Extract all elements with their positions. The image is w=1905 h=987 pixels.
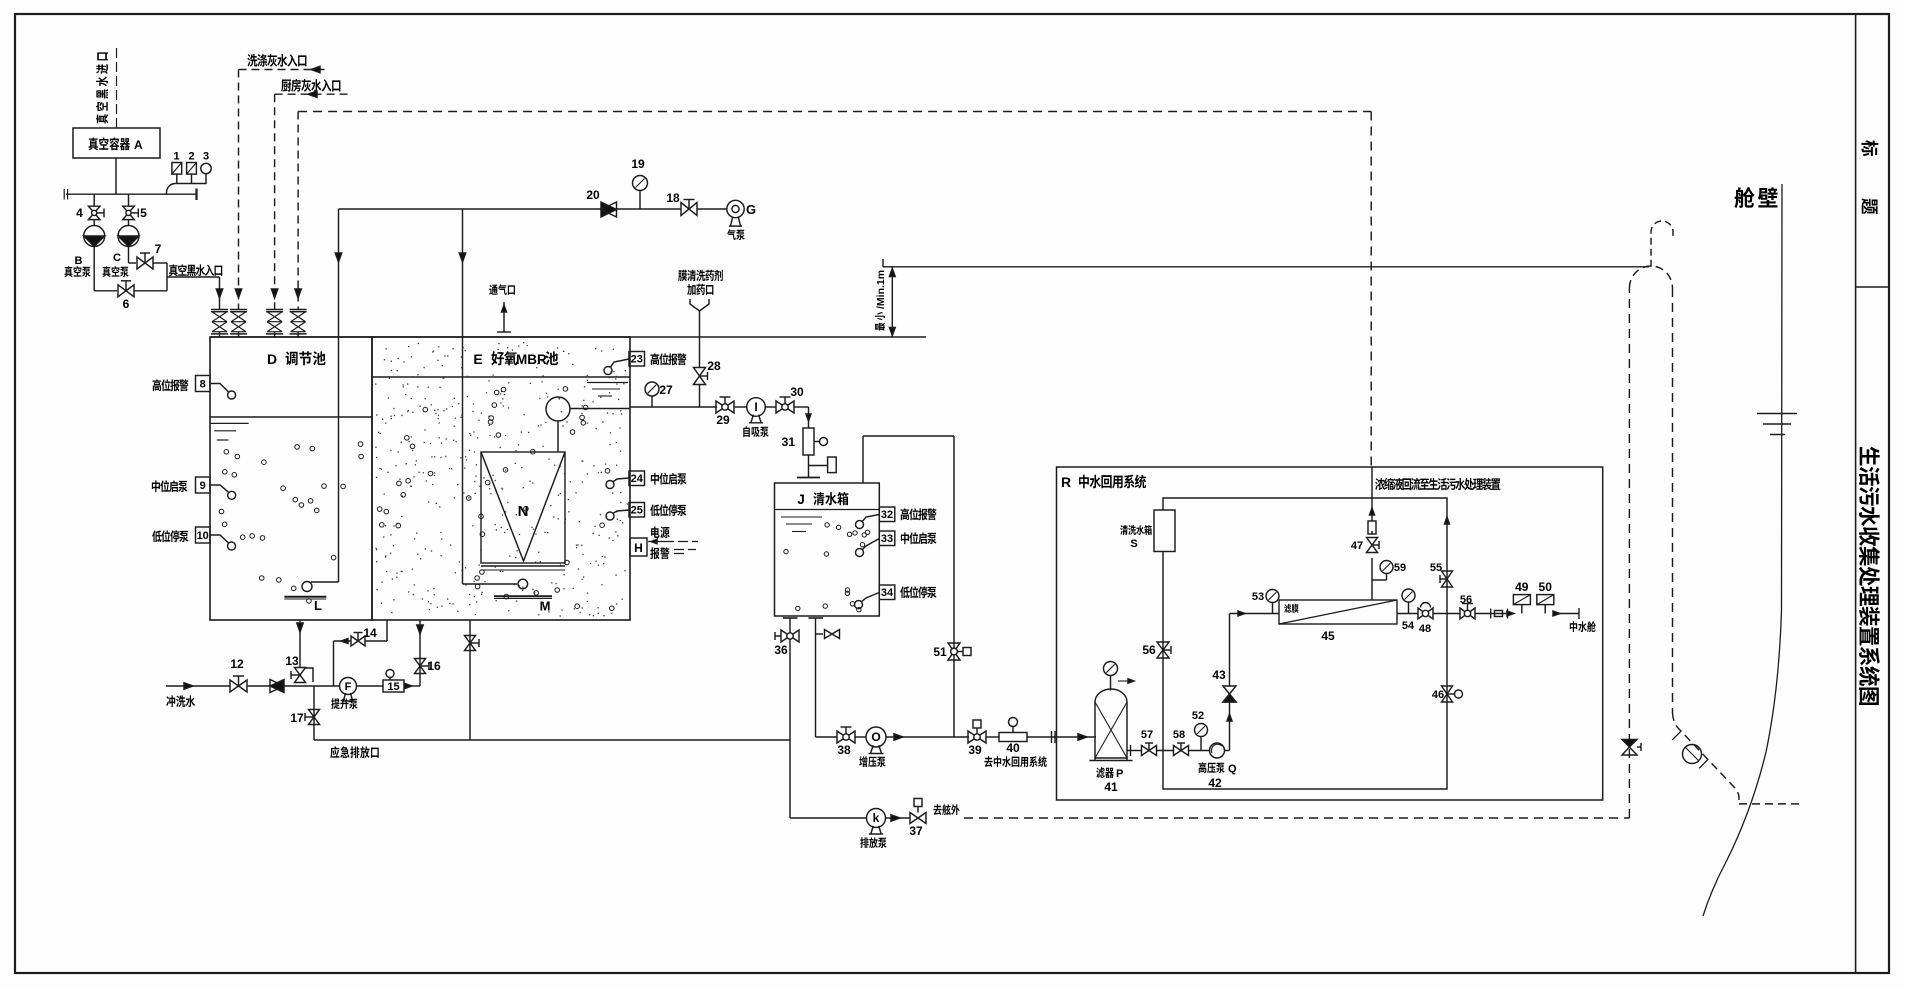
concentrate return riser (dashed) bbox=[1370, 112, 1372, 468]
dimension line 最小/Min.1m bbox=[891, 267, 893, 337]
vacuum container A bbox=[73, 128, 160, 158]
filter P outlet bbox=[1127, 750, 1141, 752]
pipe 40 to R system bbox=[1027, 736, 1096, 738]
svg-text:5: 5 bbox=[140, 206, 147, 220]
pipe 47 above R box bbox=[1371, 467, 1373, 498]
valve 57 bbox=[1142, 746, 1157, 756]
valve 47 bbox=[1367, 538, 1378, 553]
valve (tank E drain) bbox=[465, 636, 476, 651]
pipe 48 to junction bbox=[1433, 613, 1460, 615]
vacuum pump B bbox=[93, 220, 95, 226]
filter P vessel 41 bbox=[1095, 689, 1127, 758]
svg-text:MBR: MBR bbox=[516, 352, 547, 367]
tank J bubbles bbox=[784, 523, 870, 612]
svg-text:6: 6 bbox=[123, 297, 130, 311]
pipe pump B discharge loop bbox=[93, 247, 95, 291]
sensor 23 高位报警 bbox=[629, 352, 645, 367]
self-priming pump I 自吸泵 bbox=[734, 406, 747, 408]
svg-text:50: 50 bbox=[1539, 580, 1553, 594]
svg-text:57: 57 bbox=[1141, 729, 1153, 741]
tank E water level bbox=[372, 376, 630, 378]
svg-text:51: 51 bbox=[933, 645, 947, 659]
svg-text:54: 54 bbox=[1402, 620, 1415, 632]
svg-text:14: 14 bbox=[363, 626, 377, 640]
gauge 59 bbox=[1380, 561, 1393, 574]
module N bottom plate bbox=[481, 565, 565, 567]
device 15 with gauge bbox=[357, 685, 384, 687]
svg-text:53: 53 bbox=[1252, 591, 1264, 603]
sensor 10 低位停泵 bbox=[152, 530, 188, 542]
pipe to pump F bbox=[284, 685, 340, 687]
gauge 53 bbox=[1266, 590, 1279, 603]
concentrate return drop pipe to tank D inlet 4 bbox=[297, 112, 299, 310]
svg-text:25: 25 bbox=[631, 505, 643, 517]
valve 17 bbox=[309, 710, 320, 725]
svg-text:G: G bbox=[746, 202, 756, 217]
svg-text:58: 58 bbox=[1173, 729, 1185, 741]
svg-text:16: 16 bbox=[427, 659, 441, 673]
instrument 1 (pressure switch) bbox=[172, 163, 182, 175]
svg-text:38: 38 bbox=[837, 743, 851, 757]
svg-text:S: S bbox=[1130, 538, 1137, 550]
instrument 3 (gauge) bbox=[201, 163, 211, 173]
valve 38 bbox=[837, 731, 855, 743]
dosing pipe bbox=[699, 311, 701, 368]
instrument 2 (pressure switch) bbox=[187, 163, 197, 175]
filter P inlet pipe bbox=[1095, 736, 1096, 738]
pump O suction bbox=[816, 736, 838, 738]
gray water inlet label 洗涤灰水入口 bbox=[247, 54, 306, 67]
dosing port label 膜清洗药剂加药口 bbox=[678, 270, 723, 281]
label 滤器P 41 bbox=[1096, 767, 1114, 778]
inner recirculation enclosure bbox=[1163, 498, 1447, 789]
hull penetration symbol bbox=[1683, 745, 1702, 764]
deck reference line bbox=[883, 266, 1649, 268]
valve 12 bbox=[230, 680, 247, 692]
svg-text:4: 4 bbox=[76, 206, 83, 220]
svg-text:34: 34 bbox=[881, 587, 894, 599]
bulkhead label 舱壁 bbox=[1735, 187, 1778, 208]
svg-text:29: 29 bbox=[716, 413, 730, 427]
valve 51 bbox=[948, 643, 960, 660]
gauge 52 bbox=[1189, 750, 1210, 752]
instrument 49 bbox=[1513, 595, 1530, 605]
hull ground symbol bbox=[1757, 413, 1797, 415]
pipe 18 to air pump G bbox=[697, 208, 727, 210]
svg-text:49: 49 bbox=[1515, 580, 1529, 594]
valve 30 bbox=[766, 406, 777, 408]
dosing funnel bbox=[690, 299, 709, 311]
svg-text:30: 30 bbox=[790, 385, 804, 399]
valve 4 bbox=[93, 194, 95, 206]
tank D water level bbox=[210, 416, 372, 418]
sensor 8 高位报警 bbox=[153, 379, 189, 391]
valve 36 bbox=[789, 618, 791, 740]
title block text 生活污水收集处理装置系统图 bbox=[1859, 447, 1880, 705]
valve 7 bbox=[137, 257, 153, 269]
emergency drain line 应急排放口 bbox=[314, 739, 790, 741]
aerator M bbox=[518, 579, 528, 589]
vent loop over bulkhead bbox=[1629, 266, 1672, 288]
svg-text:27: 27 bbox=[659, 383, 673, 397]
svg-text:33: 33 bbox=[881, 533, 893, 545]
svg-text:2: 2 bbox=[188, 151, 194, 163]
pipe J riser to valve 51 bbox=[862, 436, 864, 483]
tank E drain 2 bbox=[469, 620, 471, 740]
svg-text:48: 48 bbox=[1419, 623, 1431, 635]
instrument connection pipe to manifold bbox=[166, 184, 206, 195]
tank J inlet plate bbox=[797, 477, 820, 479]
pipe 12 to check valve bbox=[247, 685, 270, 687]
air pipe from blower to aerators bbox=[339, 208, 609, 210]
svg-text:C: C bbox=[113, 252, 121, 264]
membrane permeate line bbox=[1397, 613, 1418, 615]
svg-text:3: 3 bbox=[203, 151, 209, 163]
svg-text:12: 12 bbox=[230, 657, 244, 671]
svg-text:D: D bbox=[267, 351, 277, 367]
valve 5 bbox=[128, 194, 130, 206]
svg-text:M: M bbox=[540, 599, 551, 614]
svg-text:E: E bbox=[473, 351, 482, 367]
valve 16 bbox=[415, 659, 426, 674]
pipe 20 to 18 bbox=[617, 208, 682, 210]
valve 56 (left) bbox=[1157, 642, 1169, 658]
valve 18 bbox=[681, 203, 697, 216]
svg-text:47: 47 bbox=[1351, 540, 1363, 552]
pipe 真空黑水入口 to tank D inlet 1 bbox=[167, 276, 220, 278]
svg-text:32: 32 bbox=[881, 509, 893, 521]
gray water inlet line (washing) bbox=[239, 69, 328, 71]
storm valve (filled) bbox=[1622, 740, 1637, 748]
tank top deck line bbox=[210, 336, 926, 338]
pipe pump C discharge bbox=[128, 247, 130, 264]
valve 13 bbox=[295, 668, 306, 683]
aerator L bbox=[302, 582, 312, 592]
svg-text:J: J bbox=[797, 492, 805, 507]
svg-text:1: 1 bbox=[173, 151, 179, 163]
pipe 57-58 bbox=[1157, 750, 1174, 752]
svg-text:7: 7 bbox=[155, 242, 162, 256]
washing gray water drop pipe bbox=[238, 70, 240, 310]
bulkhead line bbox=[1703, 184, 1782, 916]
svg-text:36: 36 bbox=[774, 643, 788, 657]
filter P gauge bbox=[1110, 676, 1112, 691]
svg-text:15: 15 bbox=[387, 681, 399, 693]
svg-text:N: N bbox=[518, 503, 529, 520]
pipe 15 to tank E feed bbox=[404, 685, 420, 687]
pipe 30 to device 31 bbox=[794, 406, 809, 408]
air pump G bbox=[727, 200, 744, 217]
svg-text:43: 43 bbox=[1212, 668, 1226, 682]
svg-text:9: 9 bbox=[200, 480, 206, 492]
valve 6 bbox=[118, 285, 134, 297]
tank E aeration texture bbox=[375, 342, 628, 617]
valve 56 (right) bbox=[1460, 608, 1475, 619]
outlet to 中水舱 bbox=[1554, 613, 1579, 615]
control box H with 电源/报警 bbox=[630, 538, 647, 556]
vent 通气口 bbox=[489, 284, 515, 295]
label 去舷外 bbox=[933, 804, 959, 815]
svg-text:13: 13 bbox=[285, 654, 299, 668]
vacuum manifold pipe bbox=[66, 193, 197, 195]
vent gooseneck bbox=[1651, 221, 1673, 267]
label 浓缩液回流至生活污水处理装置 bbox=[1375, 478, 1500, 490]
flow indicator bbox=[1475, 613, 1512, 615]
svg-text:31: 31 bbox=[782, 435, 796, 449]
pipe to pump k line bbox=[789, 740, 791, 818]
title block column bbox=[1855, 14, 1857, 973]
pump Q discharge riser bbox=[1225, 750, 1230, 752]
svg-text:H: H bbox=[634, 541, 643, 555]
gauge 19 bbox=[633, 176, 648, 191]
double valve inlet 1 bbox=[211, 309, 228, 311]
sensor 32 高位报警 bbox=[879, 507, 895, 522]
svg-text:10: 10 bbox=[197, 530, 209, 542]
valve 14 bbox=[351, 636, 365, 646]
membrane concentrate riser bbox=[1371, 558, 1373, 600]
overboard riser (dashed) bbox=[1628, 288, 1630, 818]
label 真空黑水入口 bbox=[169, 264, 222, 276]
svg-text:8: 8 bbox=[200, 379, 206, 391]
pump F 提升泵 bbox=[340, 678, 357, 695]
flushing water inlet 冲洗水 bbox=[166, 685, 230, 687]
svg-text:24: 24 bbox=[631, 473, 644, 485]
overboard dashed line bbox=[964, 817, 1629, 819]
tank J drain pipe bbox=[815, 618, 817, 737]
suction connector circle bbox=[546, 397, 570, 421]
valve 28 bbox=[694, 368, 706, 385]
svg-text:19: 19 bbox=[631, 157, 645, 171]
svg-text:56: 56 bbox=[1142, 643, 1156, 657]
svg-text:52: 52 bbox=[1192, 710, 1204, 722]
svg-text:/Min.1m: /Min.1m bbox=[875, 270, 887, 309]
pipe container A to manifold bbox=[115, 158, 117, 194]
valve 46 bbox=[1442, 686, 1453, 702]
sensor 24 中位启泵 bbox=[629, 471, 645, 486]
valve 55 bbox=[1442, 571, 1453, 587]
svg-text:46: 46 bbox=[1432, 689, 1444, 701]
check valve 43 bbox=[1223, 686, 1236, 702]
tank J 清水箱 bbox=[775, 483, 880, 616]
svg-text:I: I bbox=[754, 400, 757, 414]
double valve inlet 4 bbox=[290, 309, 307, 311]
tank J water level bbox=[775, 509, 880, 511]
svg-text:P: P bbox=[1116, 768, 1123, 780]
tank D bubbles bbox=[219, 442, 363, 603]
svg-text:28: 28 bbox=[707, 359, 721, 373]
tank J bottom flanges bbox=[783, 617, 798, 619]
label 去中水回用系统 bbox=[984, 756, 1046, 767]
tank D air pipe bbox=[338, 337, 340, 582]
kitchen gray water drop pipe bbox=[274, 94, 276, 309]
svg-text:45: 45 bbox=[1321, 629, 1335, 643]
pipe valve 7 to junction bbox=[153, 262, 167, 264]
booster pump O 增压泵 bbox=[855, 736, 866, 738]
svg-text:18: 18 bbox=[666, 191, 680, 205]
pipe valve 14 to tank E drain bbox=[365, 640, 387, 642]
tank D 调节池 bbox=[210, 337, 372, 620]
overboard downcomer (dashed) bbox=[1672, 288, 1674, 713]
valve 39 bbox=[968, 731, 986, 743]
concentrate return top line (dashed) bbox=[298, 111, 1371, 113]
title block text 标题 bbox=[1861, 140, 1878, 156]
svg-text:O: O bbox=[871, 730, 880, 744]
svg-text:55: 55 bbox=[1430, 562, 1442, 574]
device 31 (ejector) bbox=[803, 428, 814, 455]
flow device 40 bbox=[986, 736, 999, 738]
svg-text:39: 39 bbox=[968, 743, 982, 757]
tank E 好氧MBR池 bbox=[372, 337, 630, 620]
svg-text:Q: Q bbox=[1228, 763, 1237, 775]
sensor 25 低位停泵 bbox=[629, 503, 645, 518]
svg-text:k: k bbox=[873, 811, 880, 825]
svg-text:A: A bbox=[134, 138, 143, 152]
membrane module N bbox=[481, 452, 565, 563]
svg-text:59: 59 bbox=[1394, 562, 1406, 574]
valve 58 bbox=[1174, 746, 1189, 756]
svg-text:56: 56 bbox=[1460, 594, 1472, 606]
gauge 54 bbox=[1402, 589, 1415, 602]
svg-text:R: R bbox=[1061, 474, 1071, 490]
cleaning tank S 清洗水箱 bbox=[1154, 510, 1175, 552]
svg-text:40: 40 bbox=[1006, 741, 1020, 755]
valve 48 bbox=[1418, 608, 1433, 619]
check valve 13a bbox=[270, 680, 284, 693]
double valve inlet 3 bbox=[266, 309, 283, 311]
valve 37 bbox=[910, 813, 926, 824]
svg-text:41: 41 bbox=[1104, 780, 1118, 794]
vacuum pump C bbox=[128, 220, 130, 226]
sensor 9 中位启泵 bbox=[152, 480, 188, 492]
pipe k to valve 37 bbox=[886, 817, 911, 819]
pipe O to valve 39 bbox=[886, 736, 969, 738]
tank E air pipe bbox=[462, 337, 464, 584]
sensor 34 低位停泵 bbox=[879, 585, 895, 600]
recirc arrow up bbox=[1445, 517, 1450, 524]
pump k suction line bbox=[790, 817, 867, 819]
sensor 33 中位启泵 bbox=[879, 531, 895, 546]
label 真空黑水进口 (vertical) bbox=[96, 52, 108, 123]
high pressure pump Q 42 bbox=[1210, 743, 1225, 758]
suction pipe E to pump I bbox=[630, 406, 717, 408]
R system enclosure bbox=[1057, 467, 1603, 800]
overboard 45deg discharge bbox=[1673, 713, 1740, 804]
svg-text:42: 42 bbox=[1208, 776, 1222, 790]
pipe valve 6 to junction bbox=[134, 290, 167, 292]
membrane module 45 滤膜 bbox=[1279, 600, 1397, 624]
recirculation riser bbox=[333, 641, 335, 686]
instrument 50 bbox=[1537, 595, 1554, 605]
tank D drain pipe bbox=[299, 620, 301, 668]
emergency drain riser bbox=[313, 686, 315, 740]
valve 29 bbox=[716, 401, 734, 413]
tank E bubbles bbox=[377, 387, 614, 611]
kitchen gray water inlet line bbox=[275, 93, 348, 95]
svg-text:20: 20 bbox=[586, 188, 600, 202]
svg-text:17: 17 bbox=[290, 711, 304, 725]
sample valve at tank J bbox=[816, 633, 824, 635]
svg-text:F: F bbox=[345, 681, 352, 693]
kitchen gray water label 厨房灰水入口 bbox=[281, 79, 340, 92]
discharge pump k 排放泵 bbox=[867, 809, 886, 828]
svg-text:L: L bbox=[314, 598, 322, 613]
double valve inlet 2 bbox=[230, 309, 247, 311]
check valve 20 bbox=[601, 202, 617, 217]
svg-text:23: 23 bbox=[631, 354, 643, 366]
svg-text:B: B bbox=[75, 255, 83, 267]
gauge 27 bbox=[645, 382, 659, 396]
label 气泵 bbox=[727, 229, 745, 240]
svg-text:37: 37 bbox=[909, 824, 923, 838]
